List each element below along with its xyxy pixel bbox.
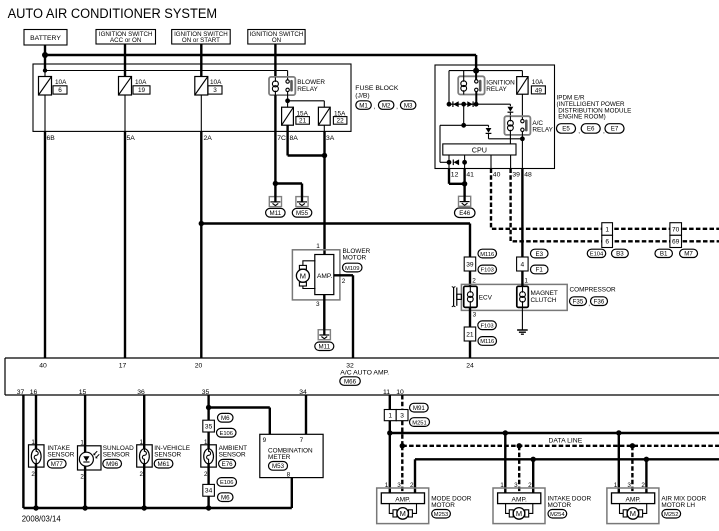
svg-text:10A: 10A [532, 79, 544, 86]
svg-text:E3: E3 [535, 251, 543, 258]
svg-text:M3: M3 [404, 102, 413, 109]
svg-text:MOTOR: MOTOR [343, 255, 367, 262]
svg-text:10A: 10A [135, 79, 147, 86]
svg-text:16: 16 [30, 389, 38, 396]
svg-text:M: M [400, 509, 406, 518]
svg-text:E104: E104 [590, 252, 604, 258]
svg-text:1: 1 [385, 482, 389, 489]
svg-text:BLOWER: BLOWER [297, 79, 325, 86]
svg-text:M61: M61 [158, 461, 171, 468]
svg-text:21: 21 [299, 118, 307, 125]
svg-text:F36: F36 [594, 298, 605, 305]
svg-text:34: 34 [299, 389, 307, 396]
svg-text:3: 3 [213, 87, 217, 94]
svg-text:ON or START: ON or START [182, 37, 220, 44]
svg-text:AMP.: AMP. [625, 496, 640, 503]
svg-text:3: 3 [316, 301, 320, 308]
svg-text:5A: 5A [127, 135, 136, 142]
svg-text:39: 39 [512, 172, 520, 179]
svg-text:SENSOR: SENSOR [103, 451, 130, 458]
svg-text:F103: F103 [481, 268, 494, 274]
svg-text:2008/03/14: 2008/03/14 [22, 514, 62, 523]
svg-text:M116: M116 [480, 252, 494, 258]
svg-text:1: 1 [316, 243, 320, 250]
svg-text:CPU: CPU [472, 145, 487, 154]
svg-text:CLUTCH: CLUTCH [531, 297, 557, 304]
svg-text:BATTERY: BATTERY [30, 35, 61, 42]
svg-text:19: 19 [138, 87, 146, 94]
svg-text:1: 1 [140, 439, 144, 446]
svg-text:COMPRESSOR: COMPRESSOR [570, 287, 617, 294]
svg-text:M251: M251 [412, 420, 427, 426]
svg-text:ENGINE ROOM): ENGINE ROOM) [558, 114, 606, 121]
svg-text:2: 2 [80, 473, 84, 480]
svg-text:RELAY: RELAY [532, 127, 553, 134]
svg-text:6: 6 [58, 87, 62, 94]
svg-text:2: 2 [204, 471, 208, 478]
svg-text:F35: F35 [573, 298, 584, 305]
svg-text:F103: F103 [480, 323, 493, 329]
svg-text:21: 21 [466, 331, 474, 338]
svg-text:39: 39 [466, 261, 474, 268]
svg-text:M91: M91 [413, 405, 426, 412]
svg-text:3: 3 [473, 311, 477, 318]
svg-text:M11: M11 [270, 210, 282, 217]
svg-text:10: 10 [396, 389, 404, 396]
svg-text:3: 3 [514, 482, 518, 489]
svg-text:B3: B3 [616, 251, 624, 258]
svg-text:AUTO AIR CONDITIONER SYSTEM: AUTO AIR CONDITIONER SYSTEM [8, 6, 218, 22]
svg-text:41: 41 [466, 172, 474, 179]
svg-text:2: 2 [472, 278, 476, 285]
svg-text:E76: E76 [222, 461, 234, 468]
svg-text:M109: M109 [345, 266, 360, 272]
svg-text:SENSOR: SENSOR [47, 451, 74, 458]
svg-text:1: 1 [500, 482, 504, 489]
svg-text:49: 49 [535, 87, 543, 94]
svg-text:M2: M2 [382, 102, 391, 109]
svg-text:9: 9 [263, 437, 267, 444]
svg-text:8: 8 [287, 471, 291, 478]
svg-text:70: 70 [672, 226, 680, 233]
svg-text:METER: METER [268, 454, 291, 461]
svg-text:E6: E6 [587, 126, 595, 133]
svg-text:36: 36 [137, 389, 145, 396]
svg-text:2: 2 [31, 471, 35, 478]
svg-text:7C: 7C [277, 135, 286, 142]
svg-text:2: 2 [140, 471, 144, 478]
svg-text:15: 15 [79, 389, 87, 396]
svg-text:32: 32 [346, 362, 354, 369]
svg-text:E46: E46 [459, 210, 471, 217]
svg-text:ECV: ECV [479, 295, 493, 302]
svg-text:E106: E106 [219, 431, 233, 437]
svg-text:RELAY: RELAY [297, 86, 318, 93]
svg-text:1: 1 [614, 482, 618, 489]
svg-text:M77: M77 [51, 461, 64, 468]
svg-text:3A: 3A [326, 135, 335, 142]
svg-text:3: 3 [627, 482, 631, 489]
svg-text:M66: M66 [344, 378, 357, 385]
svg-text:24: 24 [466, 362, 474, 369]
svg-text:M7: M7 [684, 251, 693, 258]
svg-text:M55: M55 [296, 210, 309, 217]
svg-text:6: 6 [605, 239, 609, 246]
svg-text:40: 40 [39, 362, 47, 369]
svg-text:M11: M11 [319, 343, 331, 350]
svg-text:22: 22 [337, 118, 345, 125]
svg-text:1: 1 [31, 439, 35, 446]
svg-text:M53: M53 [272, 463, 285, 470]
svg-text:4: 4 [521, 261, 525, 268]
svg-text:69: 69 [672, 239, 680, 246]
svg-text:2A: 2A [204, 135, 213, 142]
svg-text:ON: ON [272, 37, 281, 44]
svg-text:37: 37 [17, 389, 25, 396]
svg-text:1: 1 [204, 439, 208, 446]
svg-text:AMP.: AMP. [512, 496, 527, 503]
svg-text:35: 35 [205, 423, 213, 430]
svg-text:FUSE BLOCK: FUSE BLOCK [355, 85, 399, 92]
svg-text:AMP.: AMP. [317, 273, 332, 280]
svg-text:40: 40 [493, 172, 501, 179]
svg-text:M: M [516, 509, 522, 518]
svg-text:1: 1 [80, 440, 84, 447]
svg-text:M1: M1 [359, 102, 368, 109]
svg-text:DATA LINE: DATA LINE [549, 438, 583, 445]
svg-text:2: 2 [528, 482, 532, 489]
svg-text:8A: 8A [290, 135, 299, 142]
svg-text:,: , [578, 128, 580, 135]
svg-text:A/C AUTO AMP.: A/C AUTO AMP. [340, 369, 389, 376]
svg-text:B1: B1 [660, 251, 668, 258]
svg-text:3: 3 [400, 412, 404, 419]
svg-text:AMP.: AMP. [395, 496, 410, 503]
svg-text:M116: M116 [480, 339, 494, 345]
svg-text:2: 2 [641, 482, 645, 489]
svg-text:1: 1 [605, 226, 609, 233]
svg-text:M: M [300, 271, 306, 280]
svg-text:F1: F1 [536, 267, 544, 274]
svg-text:MOTOR: MOTOR [431, 502, 455, 509]
svg-text:M96: M96 [106, 461, 119, 468]
svg-text:(J/B): (J/B) [355, 93, 369, 100]
svg-text:34: 34 [205, 488, 213, 495]
svg-text:SENSOR: SENSOR [154, 451, 181, 458]
svg-text:ACC or ON: ACC or ON [110, 37, 141, 44]
svg-text:1: 1 [524, 278, 528, 285]
svg-text:35: 35 [202, 389, 210, 396]
svg-text:10A: 10A [210, 79, 222, 86]
svg-text:17: 17 [119, 362, 127, 369]
svg-text:11: 11 [383, 389, 390, 396]
svg-text:7: 7 [300, 437, 304, 444]
svg-text:1: 1 [388, 412, 392, 419]
svg-text:M: M [630, 509, 636, 518]
svg-text:M252: M252 [664, 512, 679, 518]
svg-text:12: 12 [451, 172, 459, 179]
svg-text:6B: 6B [47, 135, 56, 142]
svg-text:M6: M6 [221, 415, 230, 422]
svg-text:2: 2 [410, 482, 414, 489]
svg-text:M6: M6 [221, 494, 230, 501]
svg-text:,: , [396, 104, 398, 111]
svg-text:M254: M254 [550, 512, 565, 518]
svg-text:48: 48 [524, 172, 532, 179]
svg-text:20: 20 [195, 362, 203, 369]
svg-text:10A: 10A [55, 79, 67, 86]
svg-text:M253: M253 [434, 512, 449, 518]
svg-text:SENSOR: SENSOR [219, 451, 246, 458]
svg-text:E5: E5 [562, 126, 570, 133]
svg-text:RELAY: RELAY [486, 86, 507, 93]
svg-text:3: 3 [397, 482, 401, 489]
svg-text:,: , [374, 104, 376, 111]
svg-text:MOTOR: MOTOR [548, 502, 572, 509]
svg-text:MOTOR LH: MOTOR LH [661, 502, 695, 509]
svg-text:E7: E7 [611, 126, 619, 133]
svg-text:2: 2 [342, 278, 346, 285]
svg-text:E106: E106 [220, 480, 234, 486]
